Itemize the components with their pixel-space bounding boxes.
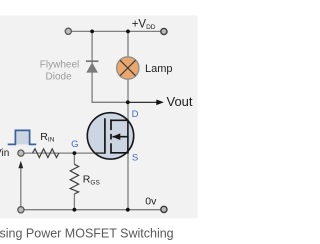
wire bottom rail [21,209,164,211]
MOSFET body lead [113,136,129,138]
junction: drain / Vout node [126,100,130,104]
junction: gate node G [73,151,77,155]
junction: RGS bottom node [73,208,77,212]
Vout arrowhead [156,100,164,106]
MOSFET internal vertical lead [127,120,129,153]
schematic panel background [0,16,198,219]
op: MOSFET Q1 body circle [87,113,133,159]
resistor RGS [70,164,78,194]
MOSFET channel top dash [110,119,112,130]
diode D1 cathode bar [86,60,99,62]
MOSFET channel middle dash [110,134,112,140]
svg-text:Vin: Vin [0,148,9,159]
svg-text:G: G [71,139,78,150]
svg-text:sing Power MOSFET Switching: sing Power MOSFET Switching [0,227,174,241]
terminal Vin [18,150,24,156]
svg-text:Vout: Vout [167,94,193,109]
terminal bottom-left [18,207,24,213]
Vin source arrowhead [18,161,23,168]
junction: diode top node [90,30,94,34]
svg-text:S: S [132,153,138,164]
svg-text:Diode: Diode [46,71,73,82]
input pulse symbol fill [15,130,29,144]
terminal top-left [65,28,71,34]
terminal 0v [161,206,167,212]
terminal +VDD [161,28,167,34]
Vout arrow shaft [128,101,158,103]
wire main vertical (drain/source) [127,31,129,209]
MOSFET channel bottom dash [110,143,112,153]
wire flywheel-diode branch [92,31,128,102]
junction: lamp top node [126,30,130,34]
MOSFET source lead [110,152,128,154]
lamp L1 cross [120,60,136,76]
resistor RIN [33,149,59,158]
svg-text:D: D [132,109,139,120]
diode D1 anode triangle [86,62,98,72]
wire top rail [68,30,163,32]
MOSFET body arrow [112,133,120,140]
wire gate [21,152,96,154]
svg-text:Flywheel: Flywheel [40,59,79,70]
MOSFET drain lead [110,119,128,121]
MOSFET gate plate [104,118,106,153]
wire RGS bottom lead [73,194,75,210]
MOSFET gate wire inside body [94,152,106,154]
wire Vin source arrow shaft [20,168,22,208]
junction: source bottom node [126,208,130,212]
lamp L1 body [117,57,139,79]
input pulse symbol outline [8,130,37,144]
svg-text:0v: 0v [145,196,157,208]
svg-text:Lamp: Lamp [145,63,173,75]
wire RGS top lead [73,153,75,164]
